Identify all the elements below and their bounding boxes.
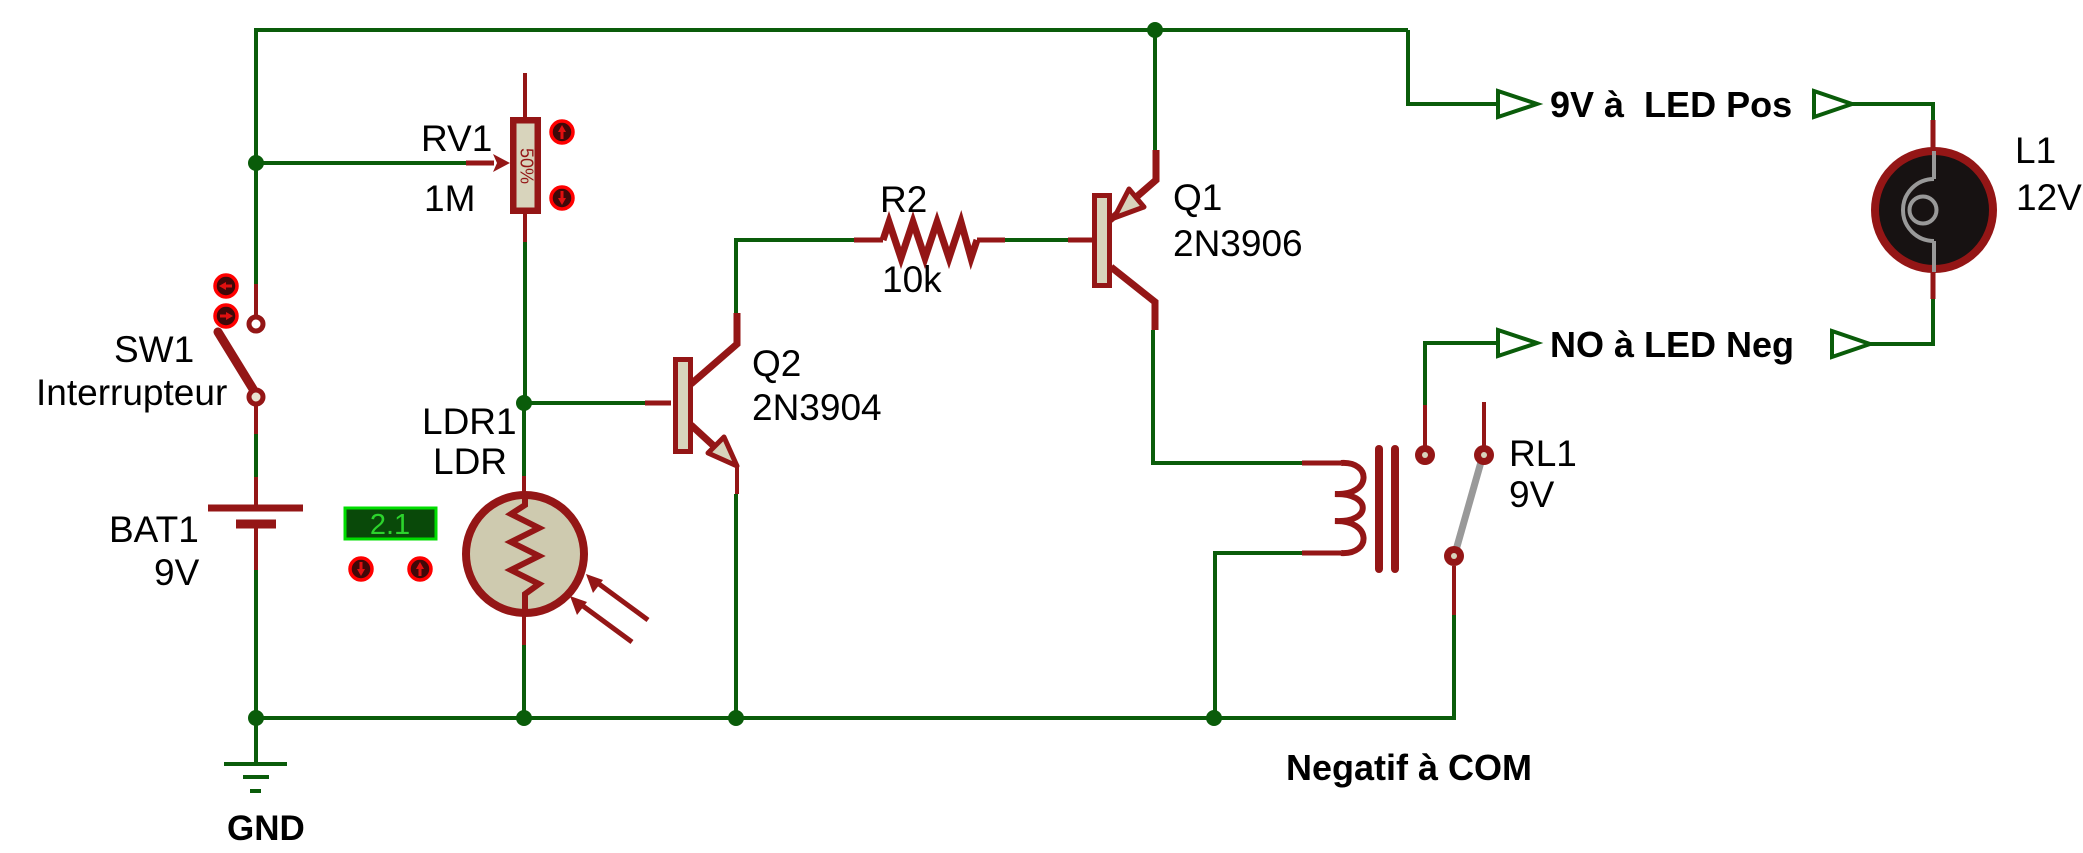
wire: top rail corner down to 9V terminal xyxy=(1408,30,1496,104)
svg-text:2N3904: 2N3904 xyxy=(752,387,882,428)
resistor R2 10k xyxy=(854,222,1005,258)
node: bottom rail Q2 emitter junction xyxy=(728,710,744,726)
svg-text:SW1: SW1 xyxy=(114,329,194,370)
svg-text:BAT1: BAT1 xyxy=(109,509,199,550)
svg-text:Negatif à COM: Negatif à COM xyxy=(1286,747,1532,788)
button: RV1 up xyxy=(551,121,573,143)
node: junction left rail to RV1 xyxy=(248,155,264,171)
svg-text:2N3906: 2N3906 xyxy=(1173,223,1303,264)
node: top rail junction Q1 emitter xyxy=(1147,22,1163,38)
terminal arrow: 9V feed xyxy=(1498,91,1537,117)
svg-text:9V: 9V xyxy=(1509,474,1555,515)
wire: node to Q2 base xyxy=(524,401,645,405)
terminal arrow: NO contact xyxy=(1498,330,1537,356)
wire: node to LDR xyxy=(522,403,526,476)
wire: left rail vertical xyxy=(254,28,258,284)
svg-text:LDR1: LDR1 xyxy=(422,401,517,442)
button: SW1 toggle right xyxy=(215,305,237,327)
wire: Q1 emitter to top rail xyxy=(1153,30,1157,150)
relay RL1 coil xyxy=(1302,449,1395,569)
wire: R2 to Q1 base xyxy=(1005,238,1068,242)
svg-text:NO à LED Neg: NO à LED Neg xyxy=(1550,324,1794,365)
svg-text:50%: 50% xyxy=(516,148,536,184)
node: bottom rail LDR junction xyxy=(516,710,532,726)
button: LDR up xyxy=(409,558,431,580)
svg-text:Q1: Q1 xyxy=(1173,177,1222,218)
svg-text:RL1: RL1 xyxy=(1509,433,1577,474)
terminal arrow: lamp negative xyxy=(1832,331,1870,357)
wire: relay coil bottom to rail xyxy=(1215,553,1302,718)
wire: RV1 to LDR node xyxy=(523,242,527,403)
transistor Q1 2N3906 xyxy=(1068,150,1156,330)
svg-text:Q2: Q2 xyxy=(752,343,801,384)
wire: terminal to lamp top xyxy=(1852,104,1933,120)
wire: switch to battery xyxy=(254,434,258,477)
node: bottom rail left corner xyxy=(248,710,264,726)
button: SW1 toggle left xyxy=(215,275,237,297)
svg-text:2.1: 2.1 xyxy=(370,509,410,541)
button: LDR down xyxy=(350,558,372,580)
wire: Q2 emitter to bottom rail xyxy=(734,494,738,718)
svg-text:12V: 12V xyxy=(2016,177,2082,218)
transistor Q2 2N3904 xyxy=(645,313,737,494)
wire: LDR to bottom rail xyxy=(522,645,526,718)
wire: battery to bottom rail xyxy=(254,570,258,718)
ground GND symbol xyxy=(224,764,287,791)
wire: Q1 collector down to relay coil xyxy=(1153,330,1302,463)
lamp L1 xyxy=(1875,120,1993,299)
svg-text:R2: R2 xyxy=(880,179,927,220)
LDR LDR1 xyxy=(466,476,648,645)
switch SW1 xyxy=(218,284,263,434)
wire: top rail xyxy=(256,28,1408,32)
wire: Q2 collector up and to R2 xyxy=(736,240,854,313)
svg-text:10k: 10k xyxy=(882,259,942,300)
svg-text:L1: L1 xyxy=(2015,130,2056,171)
terminal arrow: lamp positive xyxy=(1814,91,1852,117)
svg-text:LDR: LDR xyxy=(433,441,507,482)
wire: bottom rail xyxy=(255,716,1454,720)
wire: relay NO up to terminal xyxy=(1425,343,1496,405)
wire: relay common to bottom rail xyxy=(1452,615,1456,720)
battery BAT1 xyxy=(208,477,303,570)
svg-text:Interrupteur: Interrupteur xyxy=(36,372,227,413)
wire: GND stub xyxy=(254,718,258,762)
potentiometer RV1 xyxy=(466,73,541,242)
svg-text:1M: 1M xyxy=(424,178,475,219)
svg-text:RV1: RV1 xyxy=(421,118,492,159)
display: LDR lux readout 2.1 xyxy=(345,508,436,541)
node: bottom rail relay coil junction xyxy=(1206,710,1222,726)
svg-text:GND: GND xyxy=(227,809,305,848)
svg-text:9V à LED Pos: 9V à LED Pos xyxy=(1550,84,1792,125)
wire: terminal to lamp bottom xyxy=(1870,299,1933,344)
button: RV1 down xyxy=(551,187,573,209)
relay RL1 contacts xyxy=(1415,402,1494,615)
wire: junction to RV1 wiper xyxy=(256,161,466,165)
node: LDR / Q2 base junction xyxy=(516,395,532,411)
svg-text:9V: 9V xyxy=(154,552,200,593)
